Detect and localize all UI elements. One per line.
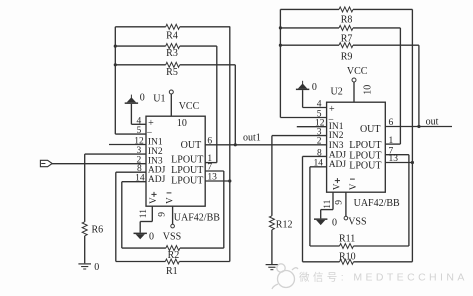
svg-text:U1: U1 — [153, 94, 165, 105]
svg-text:9: 9 — [335, 200, 345, 205]
svg-text:9: 9 — [158, 212, 168, 217]
svg-text:10: 10 — [362, 85, 373, 95]
svg-text:V: V — [348, 183, 358, 190]
svg-text:R2: R2 — [168, 250, 180, 261]
svg-text:ADJ: ADJ — [148, 165, 166, 175]
svg-text:VCC: VCC — [347, 66, 368, 77]
svg-text:3: 3 — [136, 146, 141, 156]
svg-text:10: 10 — [177, 118, 187, 129]
svg-text:OUT: OUT — [360, 124, 381, 135]
svg-text:UAF42/BB: UAF42/BB — [174, 213, 220, 224]
svg-text:0: 0 — [149, 231, 154, 242]
svg-text:R4: R4 — [166, 30, 178, 41]
svg-text:11: 11 — [323, 199, 333, 208]
svg-text:R6: R6 — [92, 224, 104, 235]
svg-text:ADJ: ADJ — [148, 175, 166, 185]
svg-text:U2: U2 — [331, 87, 343, 98]
svg-text:R8: R8 — [341, 15, 353, 26]
svg-text:8: 8 — [137, 164, 142, 174]
svg-text:out: out — [426, 116, 439, 127]
svg-text:R1: R1 — [166, 266, 178, 277]
svg-text:0: 0 — [312, 82, 317, 93]
svg-text:7: 7 — [207, 163, 212, 173]
svg-text:2: 2 — [317, 137, 322, 147]
svg-text:LPOUT: LPOUT — [171, 154, 203, 165]
svg-text:13: 13 — [207, 173, 217, 183]
svg-text:11: 11 — [139, 209, 149, 218]
svg-text:R11: R11 — [339, 234, 355, 245]
svg-text:ADJ: ADJ — [329, 160, 347, 170]
svg-text:LPOUT: LPOUT — [349, 161, 381, 172]
svg-text:8: 8 — [317, 148, 322, 158]
svg-text:6: 6 — [207, 136, 212, 146]
svg-text:V: V — [332, 183, 342, 190]
svg-text:R3: R3 — [166, 48, 178, 59]
svg-text:OUT: OUT — [181, 140, 202, 151]
svg-text:IN1: IN1 — [148, 137, 163, 147]
svg-text:R7: R7 — [341, 33, 353, 44]
svg-text:R9: R9 — [341, 51, 353, 62]
svg-text:14: 14 — [314, 159, 324, 169]
svg-text:14: 14 — [135, 174, 145, 184]
svg-text:VCC: VCC — [179, 101, 200, 112]
svg-text:IN3: IN3 — [329, 141, 344, 151]
svg-text:5: 5 — [136, 126, 141, 136]
svg-text:R12: R12 — [276, 220, 293, 231]
svg-text:4: 4 — [317, 100, 322, 110]
svg-text:0: 0 — [332, 218, 337, 229]
svg-text:R5: R5 — [166, 67, 178, 78]
svg-text:VSS: VSS — [348, 217, 366, 228]
svg-text:13: 13 — [389, 154, 399, 164]
svg-text:VSS: VSS — [163, 231, 181, 242]
svg-text:LPOUT: LPOUT — [171, 175, 203, 186]
svg-text:4: 4 — [136, 116, 141, 126]
svg-text:out1: out1 — [243, 132, 261, 143]
svg-text:+: + — [329, 104, 335, 115]
svg-text:R10: R10 — [339, 251, 356, 262]
svg-text:12: 12 — [134, 137, 144, 147]
svg-text:IN2: IN2 — [329, 131, 344, 141]
svg-text:0: 0 — [94, 262, 99, 273]
svg-text:IN2: IN2 — [148, 147, 163, 157]
svg-text:6: 6 — [389, 118, 394, 128]
svg-text:ADJ: ADJ — [329, 150, 347, 160]
svg-text:UAF42/BB: UAF42/BB — [354, 198, 400, 209]
svg-text:1: 1 — [389, 136, 394, 146]
svg-text:0: 0 — [140, 93, 145, 104]
svg-text:V: V — [148, 197, 158, 204]
svg-text:V: V — [165, 197, 175, 204]
svg-text:微信号: MEDTECCHINA: 微信号: MEDTECCHINA — [299, 270, 468, 283]
